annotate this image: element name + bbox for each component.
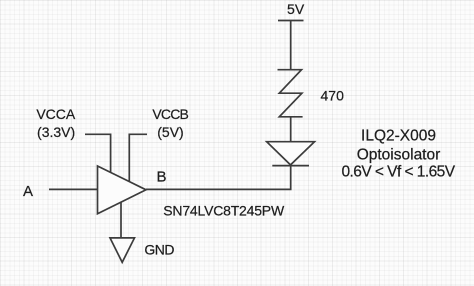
wire VCCA	[85, 134, 111, 172]
svg-text:A: A	[23, 183, 33, 200]
wire buffer to ground	[120, 202, 122, 238]
svg-text:SN74LVC8T245PW: SN74LVC8T245PW	[163, 202, 285, 218]
svg-text:VCCA: VCCA	[36, 106, 76, 122]
wire input A	[49, 188, 98, 190]
svg-text:B: B	[157, 168, 167, 185]
svg-text:VCCB: VCCB	[152, 106, 188, 122]
ground symbol	[110, 238, 135, 262]
LED anode triangle	[267, 142, 315, 165]
wire resistor to LED	[290, 117, 292, 142]
LED cathode bar	[272, 165, 309, 167]
svg-text:Optoisolator: Optoisolator	[357, 146, 441, 163]
wire LED to node B	[146, 166, 291, 190]
svg-text:5V: 5V	[287, 1, 305, 17]
resistor 470	[278, 70, 303, 117]
buffer U1 triangle	[98, 166, 147, 214]
svg-text:ILQ2-X009: ILQ2-X009	[361, 128, 436, 145]
svg-text:GND: GND	[144, 241, 174, 257]
power rail bar	[278, 20, 304, 22]
svg-text:(5V): (5V)	[157, 124, 183, 140]
svg-text:470: 470	[321, 88, 345, 104]
svg-text:0.6V < Vf < 1.65V: 0.6V < Vf < 1.65V	[341, 164, 455, 181]
wire 5V rail to resistor	[290, 21, 292, 71]
svg-text:(3.3V): (3.3V)	[37, 124, 75, 140]
wire VCCB	[129, 134, 147, 181]
